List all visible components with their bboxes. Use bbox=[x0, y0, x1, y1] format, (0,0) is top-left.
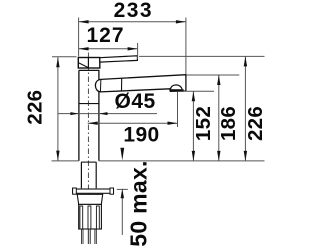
body column left edge bbox=[78, 70, 80, 160]
svg-text:233: 233 bbox=[114, 0, 153, 22]
counter top line right segment bbox=[99, 160, 265, 162]
dim 127 line bbox=[79, 48, 138, 50]
svg-text:127: 127 bbox=[86, 24, 124, 47]
dim 190 line bbox=[88, 122, 178, 124]
arrow O45 left bbox=[70, 112, 79, 115]
svg-text:186: 186 bbox=[217, 106, 240, 141]
shank below counter right bbox=[95, 162, 97, 188]
centre axis line bbox=[87, 53, 89, 201]
arrow 50max up-to-flange bbox=[121, 188, 124, 198]
arrow 186 up bbox=[217, 75, 220, 85]
arrow 233 right bbox=[176, 20, 186, 23]
top reference line bbox=[139, 55, 265, 57]
svg-text:Ø45: Ø45 bbox=[114, 90, 155, 113]
arrow 190 right bbox=[168, 122, 178, 125]
threaded shank block bbox=[79, 204, 102, 229]
collar ring under housing bbox=[79, 69, 100, 71]
shank slot left bbox=[80, 206, 83, 229]
body column right edge bbox=[98, 70, 100, 160]
shank slot right bbox=[96, 206, 99, 229]
shank slot centre bbox=[88, 206, 91, 229]
svg-text:226: 226 bbox=[244, 106, 267, 141]
hose centre bbox=[87, 229, 89, 244]
arrow right226 down bbox=[244, 151, 247, 161]
hose left bbox=[81, 229, 83, 244]
handle housing bbox=[78, 58, 100, 69]
dim 186 line bbox=[218, 75, 220, 161]
spout joint line bbox=[121, 78, 123, 91]
left 226 dim line bbox=[57, 57, 59, 160]
body joint line bbox=[79, 103, 99, 105]
svg-text:190: 190 bbox=[123, 124, 159, 147]
arrow left226 down bbox=[56, 151, 59, 161]
arrow 152 up bbox=[192, 91, 195, 101]
body bottom face at counter bbox=[81, 161, 96, 163]
dim 127 right extension line bbox=[137, 43, 139, 59]
hose right bbox=[94, 229, 96, 244]
arrow right226 up bbox=[244, 56, 247, 66]
dim 152 extension line bbox=[184, 90, 214, 92]
left 226 top extension line bbox=[52, 56, 77, 58]
flange plate bbox=[73, 189, 114, 193]
dim 152 line bbox=[192, 91, 194, 161]
arrow O45 right bbox=[99, 112, 108, 115]
arrow 127 right bbox=[128, 47, 138, 50]
arrow 152 down bbox=[192, 151, 195, 161]
shank below counter left bbox=[80, 162, 82, 188]
handle pivot diagonal bbox=[78, 63, 88, 68]
flange left cap bbox=[73, 188, 77, 194]
lever arm bbox=[100, 56, 138, 62]
dim 186 extension line bbox=[187, 74, 240, 76]
dim 233 line bbox=[79, 21, 186, 23]
arrow 127 left bbox=[79, 47, 89, 50]
flange right cap bbox=[110, 188, 114, 194]
dim 50max lower tail bbox=[121, 197, 123, 235]
dim 233 left extension line bbox=[78, 18, 80, 57]
aerator extension line bbox=[177, 92, 179, 127]
dim 233 right extension line bbox=[185, 18, 187, 75]
housing joint line bbox=[87, 58, 89, 69]
aerator outlet face bbox=[170, 89, 183, 91]
svg-text:226: 226 bbox=[24, 90, 47, 125]
dim 50max tick bbox=[117, 188, 128, 190]
dim O45 line bbox=[58, 113, 157, 115]
svg-text:50 max.: 50 max. bbox=[126, 160, 152, 247]
arrow 233 left bbox=[79, 20, 89, 23]
svg-text:152: 152 bbox=[192, 106, 215, 141]
arrow 190 left bbox=[88, 122, 98, 125]
aerator dome bbox=[170, 85, 182, 89]
mounting nut bbox=[77, 194, 103, 204]
dim 226 right line bbox=[244, 56, 246, 160]
arrow 50max down-to-counter bbox=[120, 148, 124, 161]
spout bbox=[95, 75, 186, 92]
spout cap joint bbox=[99, 79, 102, 91]
arrow 186 down bbox=[217, 151, 220, 161]
arrow left226 up bbox=[56, 57, 59, 67]
counter top line left segment bbox=[52, 160, 79, 162]
